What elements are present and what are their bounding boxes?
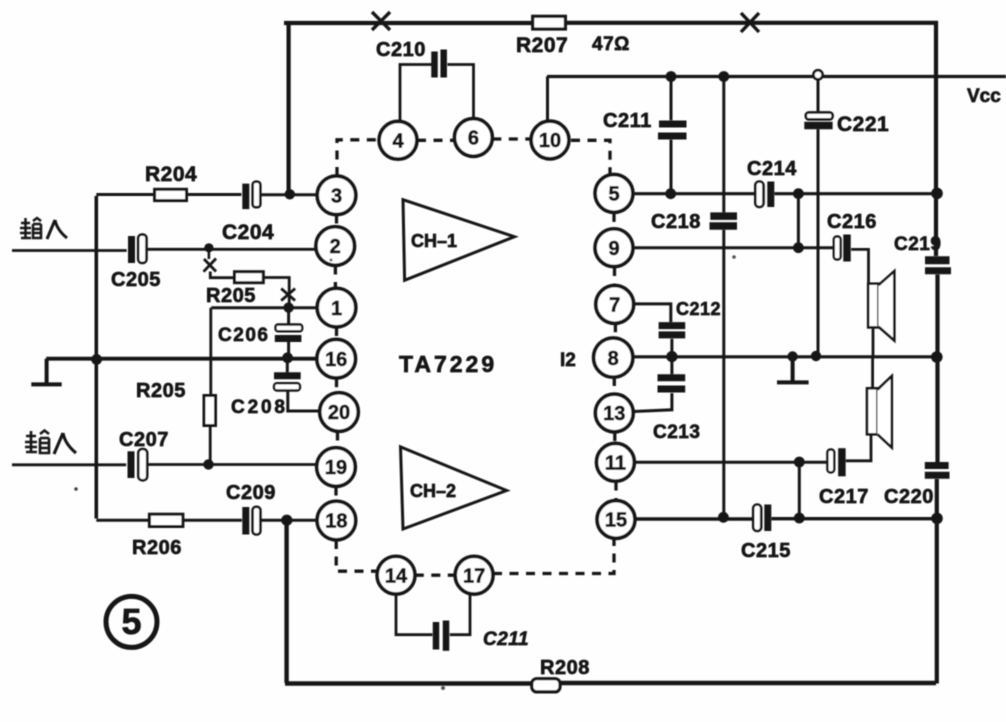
node pin15 row right junction — [931, 513, 943, 525]
capacitor C204 — [246, 182, 260, 209]
wire right vertical lower — [935, 479, 939, 684]
node pin5 row C211 junction — [665, 188, 676, 199]
svg-text:C214: C214 — [747, 158, 797, 180]
capacitor C215 — [753, 505, 768, 532]
dashed IC boundary bottom — [415, 539, 614, 575]
wire Vcc rail — [547, 75, 1006, 78]
node tap on pin2 line — [204, 243, 213, 252]
svg-text:CH–1: CH–1 — [411, 231, 457, 251]
svg-text:R205: R205 — [206, 285, 256, 307]
wire pin8 row — [632, 355, 937, 358]
wire C213 leads — [634, 357, 672, 412]
capacitor C207 — [131, 449, 147, 480]
wire pin10 lead to Vcc — [546, 77, 549, 122]
pin 2 — [316, 227, 355, 266]
svg-text:10: 10 — [539, 130, 561, 152]
node pin5 row link junction — [793, 188, 804, 199]
svg-text:C213: C213 — [653, 422, 700, 443]
wire R205 vertical branch — [209, 308, 212, 396]
svg-text:5: 5 — [608, 184, 619, 206]
node Vcc junction C218 — [718, 71, 729, 82]
figure number circled 5 — [106, 596, 157, 647]
svg-text:16: 16 — [325, 349, 347, 371]
wire pin7 stub — [634, 304, 671, 322]
svg-text:6: 6 — [468, 128, 479, 150]
svg-text:C211: C211 — [603, 110, 652, 132]
node pin15 row C218 junction — [718, 512, 729, 523]
wire input line 1 — [12, 249, 127, 252]
wire R205 to pin1 row corner — [263, 278, 289, 308]
wire pin15 row — [635, 517, 937, 521]
svg-text:5: 5 — [121, 601, 141, 642]
svg-text:C209: C209 — [226, 482, 276, 504]
wire pin16 row with ground — [46, 357, 316, 361]
svg-text:2: 2 — [330, 236, 341, 258]
svg-text:C218: C218 — [651, 211, 701, 233]
pin 10 — [531, 121, 569, 159]
wire pin11 row — [635, 461, 828, 464]
speck — [441, 686, 445, 690]
wire pin3 row — [96, 193, 317, 196]
svg-text:R208: R208 — [540, 657, 590, 679]
pin 3 — [317, 176, 356, 215]
wire link pin5row to pin9row — [797, 194, 800, 248]
node Vcc junction C211 — [666, 71, 677, 82]
capacitor C220 — [925, 466, 950, 476]
wire C207 to pin19 — [147, 463, 316, 466]
svg-text:47Ω: 47Ω — [592, 34, 630, 55]
resistor R206 — [149, 514, 183, 526]
svg-text:C207: C207 — [119, 429, 169, 451]
svg-text:18: 18 — [325, 511, 347, 533]
wire C218 vertical — [722, 77, 725, 518]
wire input line 2 — [12, 463, 126, 466]
ground right — [777, 357, 809, 383]
svg-text:C205: C205 — [111, 269, 161, 291]
capacitor C205 — [132, 235, 147, 263]
pin 1 — [317, 288, 356, 327]
node pin9 row junction — [793, 242, 804, 253]
wire left feedback vertical — [95, 196, 99, 519]
resistor R207 — [533, 16, 566, 29]
capacitor C214 — [755, 182, 771, 208]
wire tap stub down — [208, 248, 211, 259]
capacitor C221 — [804, 112, 832, 125]
node pin8 row C212 junction — [666, 351, 677, 362]
node pin18 junction — [281, 515, 292, 526]
wire X to R205 horizontal — [210, 272, 234, 278]
svg-text:C215: C215 — [741, 540, 791, 562]
svg-text:8: 8 — [608, 348, 619, 370]
wire top-left vertical — [287, 21, 291, 194]
svg-text:14: 14 — [385, 565, 408, 587]
wire right vertical upper — [934, 21, 938, 256]
dashed IC boundary top — [337, 139, 610, 176]
wire R205v to pin19 row — [209, 426, 212, 465]
wire C212 to pin8 row — [670, 339, 673, 356]
X mark below tap — [204, 259, 217, 272]
capacitor C210 leads — [400, 65, 474, 122]
capacitor C216 — [834, 235, 847, 262]
pin 6 — [455, 119, 493, 157]
node pin19 junction — [203, 459, 213, 469]
pin 9 — [595, 229, 633, 267]
node pin16 feedback junction — [91, 354, 102, 365]
node pin8 row C221 junction — [811, 351, 821, 361]
capacitor C212 — [659, 326, 686, 335]
capacitor C217 — [827, 448, 842, 476]
node pin5 row right junction — [931, 188, 943, 200]
svg-text:R204: R204 — [145, 163, 197, 186]
capacitor C206 chain wire — [287, 308, 290, 357]
capacitor C209 — [246, 507, 261, 535]
wire top rail right segment — [565, 21, 934, 25]
dashed IC boundary left column — [335, 215, 377, 572]
speaker SP1 — [868, 271, 894, 340]
speck — [74, 487, 78, 491]
svg-text:C211: C211 — [483, 629, 529, 650]
capacitor C211 top leads — [670, 77, 673, 195]
dashed IC boundary right column — [614, 213, 616, 500]
node pin3 junction — [285, 189, 295, 199]
label input 2 (Chinese shu-ru) — [25, 431, 76, 455]
svg-text:C210: C210 — [376, 39, 426, 61]
svg-text:17: 17 — [463, 565, 485, 587]
capacitor C219 — [925, 260, 951, 271]
svg-text:1: 1 — [331, 298, 342, 320]
resistor R204 — [155, 189, 187, 200]
resistor R205 vertical — [204, 396, 216, 426]
capacitor C206 — [275, 325, 302, 339]
wire pin18 row — [96, 519, 316, 522]
pin 20 — [320, 393, 359, 432]
X mark on pin1 feed — [281, 289, 295, 301]
svg-text:C219: C219 — [894, 234, 941, 255]
pin 16 — [317, 339, 356, 378]
wire pin8 row to speaker2 — [871, 357, 874, 388]
svg-text:I2: I2 — [560, 350, 576, 371]
node Vcc open circle C221 — [813, 70, 822, 79]
svg-text:R206: R206 — [132, 537, 182, 559]
wire right vertical middle — [935, 275, 939, 463]
svg-text:C206: C206 — [218, 325, 268, 346]
pin 19 — [317, 448, 356, 487]
X mark on top rail left — [372, 12, 390, 30]
node pin8 row ground junction — [787, 351, 797, 361]
svg-text:19: 19 — [325, 457, 347, 479]
capacitor C208 — [274, 376, 301, 391]
svg-text:CH–2: CH–2 — [410, 481, 456, 501]
pin 7 — [596, 286, 634, 324]
wire link pin11row to pin15row — [798, 462, 801, 518]
amplifier CH-1 triangle — [403, 200, 514, 281]
wire pin1 row — [211, 306, 317, 309]
pin 5 — [595, 175, 633, 213]
svg-text:C208: C208 — [231, 397, 285, 418]
capacitor C211 bottom leads — [396, 594, 470, 635]
wire pin9 row — [632, 246, 834, 249]
resistor R205 horizontal — [235, 272, 264, 283]
svg-text:3: 3 — [331, 186, 342, 208]
wire C216 to speaker1 — [851, 249, 868, 284]
pin 18 — [317, 501, 356, 540]
svg-text:TA7229: TA7229 — [399, 351, 497, 377]
capacitor C210 — [435, 50, 444, 78]
capacitor C221 lead wire — [817, 80, 820, 356]
capacitor C213 — [658, 378, 686, 389]
svg-text:C212: C212 — [676, 299, 721, 319]
resistor R208 — [532, 679, 560, 692]
wire top rail left segment — [284, 21, 533, 25]
capacitor C211 bottom — [436, 621, 446, 651]
node pin11 row junction — [794, 457, 805, 468]
wire bottom rail — [285, 681, 936, 686]
label input 1 (Chinese shu-ru) — [20, 218, 67, 239]
ground left — [31, 359, 61, 385]
svg-text:C217: C217 — [819, 486, 869, 508]
svg-text:R207: R207 — [516, 34, 568, 57]
pin 13 — [595, 394, 633, 432]
pin 17 — [455, 556, 493, 594]
svg-text:9: 9 — [608, 238, 619, 260]
node pin8 row right junction — [931, 351, 943, 363]
svg-text:Vcc: Vcc — [967, 86, 1001, 107]
svg-text:20: 20 — [328, 402, 350, 424]
svg-text:C220: C220 — [884, 486, 934, 508]
wire speaker1 to pin8 row — [872, 327, 875, 355]
svg-text:C216: C216 — [827, 211, 877, 233]
svg-text:C204: C204 — [222, 221, 274, 244]
wire speaker2 to C217 — [846, 434, 871, 460]
pin 14 — [377, 556, 415, 594]
wire C205 to pin2 — [147, 248, 316, 251]
svg-text:15: 15 — [605, 510, 627, 532]
node pin15 row link junction — [794, 513, 805, 524]
svg-text:R205: R205 — [136, 380, 186, 402]
node pin16 C206 junction — [282, 352, 293, 363]
svg-text:7: 7 — [609, 295, 620, 317]
wire thick vertical pin18 to bottom — [284, 520, 288, 683]
pin 11 — [597, 443, 635, 481]
capacitor C218 — [710, 216, 738, 226]
svg-text:C221: C221 — [837, 113, 889, 136]
svg-text:11: 11 — [605, 453, 626, 475]
pin 15 — [597, 501, 635, 539]
pin 4 — [379, 121, 417, 159]
speck — [330, 259, 333, 262]
X mark on top rail right — [741, 13, 759, 32]
node pin1 junction — [283, 302, 293, 312]
capacitor C211 top — [658, 124, 687, 136]
wire pin5 row — [632, 192, 936, 195]
amplifier CH-2 triangle — [401, 447, 507, 529]
speck — [732, 255, 736, 259]
svg-text:13: 13 — [603, 403, 625, 425]
svg-text:4: 4 — [392, 131, 404, 153]
speaker SP2 — [867, 376, 892, 448]
pin 8 — [594, 338, 633, 377]
capacitor C208 chain wire — [287, 359, 319, 411]
